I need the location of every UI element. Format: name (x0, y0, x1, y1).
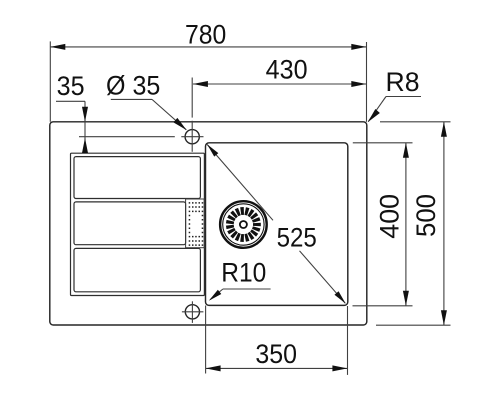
svg-text:35: 35 (57, 71, 85, 101)
svg-text:R8: R8 (386, 67, 420, 97)
svg-text:525: 525 (277, 223, 317, 253)
svg-text:780: 780 (185, 20, 226, 50)
svg-text:350: 350 (255, 339, 297, 369)
svg-text:Ø 35: Ø 35 (106, 70, 160, 100)
svg-text:430: 430 (266, 55, 308, 85)
svg-text:500: 500 (411, 194, 441, 237)
svg-text:R10: R10 (221, 257, 266, 287)
svg-text:400: 400 (375, 194, 405, 239)
